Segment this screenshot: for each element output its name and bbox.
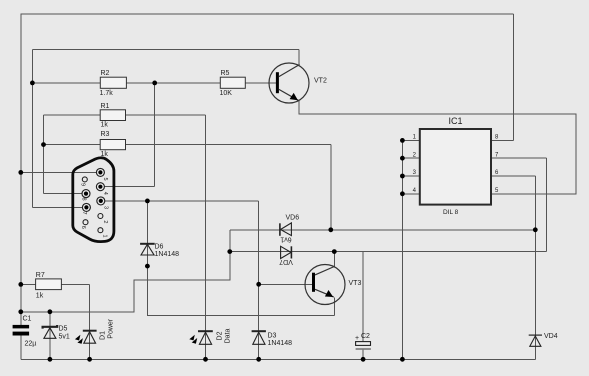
svg-text:8: 8 <box>81 198 87 201</box>
svg-text:1.7k: 1.7k <box>100 90 114 97</box>
svg-text:1N4148: 1N4148 <box>268 340 293 347</box>
svg-text:Data: Data <box>225 329 232 344</box>
svg-text:6: 6 <box>80 226 86 229</box>
svg-text:1k: 1k <box>101 151 109 158</box>
svg-text:D3: D3 <box>268 333 277 340</box>
svg-text:6v1: 6v1 <box>280 235 291 242</box>
svg-text:D1: D1 <box>99 331 106 340</box>
svg-text:R1: R1 <box>101 103 110 110</box>
svg-text:D5: D5 <box>59 326 68 333</box>
svg-text:3: 3 <box>102 206 108 209</box>
svg-text:7: 7 <box>81 212 87 215</box>
svg-text:R7: R7 <box>36 272 45 279</box>
svg-text:R2: R2 <box>101 70 110 77</box>
svg-text:5v1: 5v1 <box>59 334 70 341</box>
svg-text:1k: 1k <box>36 293 44 300</box>
svg-text:R3: R3 <box>101 131 110 138</box>
svg-text:VT2: VT2 <box>314 78 327 85</box>
svg-text:1: 1 <box>102 235 108 238</box>
svg-text:1k: 1k <box>101 122 109 129</box>
svg-text:4: 4 <box>102 192 108 195</box>
svg-text:C1: C1 <box>23 316 32 323</box>
svg-text:C2: C2 <box>361 333 370 340</box>
svg-text:10K: 10K <box>220 90 233 97</box>
svg-text:1N4148: 1N4148 <box>155 251 180 258</box>
svg-text:5: 5 <box>102 178 108 181</box>
svg-text:IC1: IC1 <box>449 116 463 126</box>
svg-text:VT3: VT3 <box>349 280 362 287</box>
svg-text:D2: D2 <box>216 331 223 340</box>
svg-text:D6: D6 <box>155 244 164 251</box>
svg-text:9: 9 <box>80 183 86 186</box>
svg-text:Power: Power <box>108 318 115 339</box>
svg-text:VD7: VD7 <box>279 258 293 265</box>
svg-text:2: 2 <box>102 220 108 223</box>
svg-text:VD4: VD4 <box>544 333 558 340</box>
svg-text:VD6: VD6 <box>286 215 300 222</box>
svg-text:DIL 8: DIL 8 <box>443 209 459 216</box>
svg-text:R5: R5 <box>221 70 230 77</box>
svg-text:+: + <box>355 335 359 342</box>
svg-text:22µ: 22µ <box>25 341 37 348</box>
